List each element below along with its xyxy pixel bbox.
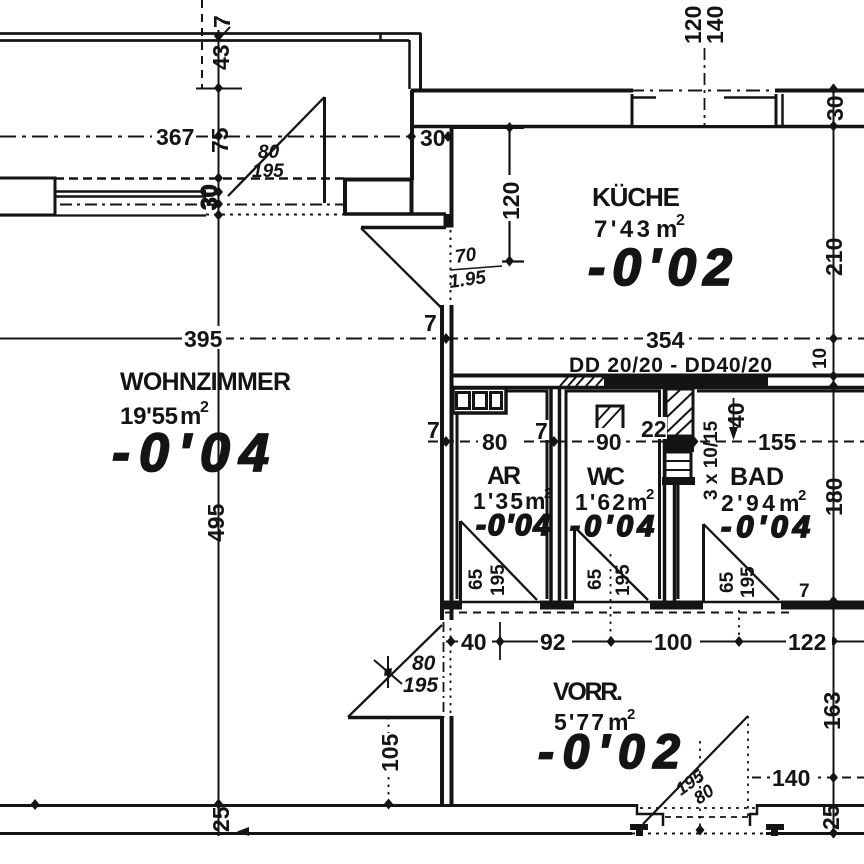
AR door size label [466,564,509,596]
svg-text:210: 210 [821,238,847,276]
rooms bottom dashed line [445,612,793,614]
AR door swing chord [461,521,538,600]
vorraum door size label [403,652,438,697]
WC fixture [597,406,623,434]
kitchen window recess [630,87,783,126]
balcony right edge inner [408,40,411,89]
dim 30 arrows at pier [407,125,453,151]
duct solid black wall segment [604,374,768,388]
entry door leaf diagonal [643,716,748,824]
rooms bottom wall segment 3 [650,601,703,610]
svg-text:10: 10 [810,348,831,369]
dim 140 [752,765,864,791]
svg-text:7: 7 [424,310,437,336]
WC door dotted dim line [610,554,612,640]
svg-text:AR: AR [487,462,521,490]
rooms bottom wall segment 4 [781,601,864,610]
svg-text:80: 80 [482,429,508,455]
top exterior wall outer face [411,89,864,93]
svg-text:155: 155 [758,429,797,455]
left window sill block [0,178,55,215]
svg-text:70: 70 [454,244,478,268]
kitchen door size handwriting [448,244,502,293]
svg-text:40: 40 [461,629,487,655]
entry door left jamb [630,804,663,836]
entry door right jamb [750,804,784,836]
svg-text:195: 195 [252,161,284,182]
svg-text:65: 65 [466,568,487,590]
wall segment pier to top wall [410,90,414,180]
kitchen door opening dotted edge [450,230,452,305]
svg-text:7: 7 [209,15,235,28]
svg-text:3 x 10/15: 3 x 10/15 [701,420,722,500]
svg-text:65: 65 [717,571,738,593]
window frame jamb [204,190,206,198]
dimension line 367 dashdot [0,136,410,138]
wall wohnzimmer/hall upper [442,305,452,620]
svg-text:140: 140 [702,6,728,44]
svg-text:395: 395 [184,326,223,352]
vorraum door leaf [348,716,442,720]
vorraum door swing chord [348,625,442,717]
AR door leaf [459,521,462,601]
hatched wall segment [560,377,604,386]
wall inner face line [0,214,206,216]
svg-text:80: 80 [258,142,280,163]
markers left line [214,31,223,810]
svg-text:65: 65 [585,568,606,590]
balcony door swing chord [228,97,325,196]
kitchen door leaf [361,226,446,230]
svg-text:40: 40 [723,402,749,428]
wall wohnzimmer/vorraum lower [442,716,452,806]
svg-text:180: 180 [821,478,847,516]
svg-text:2: 2 [676,212,685,229]
svg-text:-0'04: -0'04 [476,509,551,542]
svg-text:80: 80 [412,652,436,675]
dashed vertical at x202 [201,0,203,88]
svg-text:195: 195 [738,566,759,598]
area label 2.94 m2 [721,487,806,516]
balcony rail end vertical [379,33,382,41]
svg-text:2: 2 [798,487,806,504]
entry door marker [696,825,705,836]
shaft black bottom [662,477,695,485]
svg-text:140: 140 [772,765,810,791]
svg-text:75: 75 [207,127,233,153]
shaft pipe boxes [665,452,691,479]
svg-text:105: 105 [377,733,403,772]
svg-text:2: 2 [200,399,209,416]
WC door leaf [573,527,576,601]
wall inner dotted continuation [206,214,344,216]
kitchen door swing chord [361,228,442,308]
bottom exterior wall top face left [0,804,637,807]
dimension line 395/354 [0,326,864,353]
top exterior wall inner face [411,125,864,129]
svg-text:122: 122 [788,629,826,655]
vorraum door marker [374,656,402,688]
svg-text:22: 22 [641,416,667,442]
tick at 88 [196,88,242,90]
svg-text:2: 2 [544,485,552,502]
svg-text:30: 30 [196,184,222,210]
marker bottom wall left [31,799,40,810]
shaft hatched [666,389,693,436]
dimension line left vertical [218,30,220,836]
WC door swing chord [575,527,649,600]
svg-text:WOHNZIMMER: WOHNZIMMER [120,368,291,396]
area label 1.35 m2 [473,485,552,514]
label 367 [152,123,196,150]
vorraum door dotted line [450,628,452,714]
BAD door swing chord [704,524,780,600]
svg-text:495: 495 [203,503,229,542]
svg-text:2: 2 [646,486,654,503]
dimension line vorraum horizontal 641 [446,622,864,660]
bottom exterior wall top face right [757,804,864,807]
shaft black separator [663,436,694,452]
BAD room inner outline left [677,484,680,599]
AR room inner outline [457,391,547,599]
area label 19.55 m2 [120,399,209,430]
balcony rail inner line [0,39,409,42]
svg-text:100: 100 [654,629,692,655]
entry door threshold dashed [665,816,750,818]
svg-text:2: 2 [627,706,635,723]
window outer dashed line [55,177,344,180]
wall WC/BAD [665,387,675,601]
bottom exterior wall bottom face [0,832,864,835]
entry door dim dotted [699,741,701,834]
balcony rail top line [0,32,421,35]
svg-text:25: 25 [818,804,844,830]
wall AR/WC [551,387,560,601]
svg-text:KÜCHE: KÜCHE [592,182,680,212]
dim 40 vertical small [723,398,749,440]
svg-text:DD 20/20 - DD40/20: DD 20/20 - DD40/20 [569,354,772,377]
svg-text:VORR.: VORR. [553,678,623,706]
area label 5.77 m2 [554,706,635,735]
kitchen dim 120 vertical [451,122,524,267]
svg-text:367: 367 [156,124,194,150]
balcony door size label [252,142,284,182]
svg-text:BAD: BAD [730,463,784,491]
vorraum door centerline dashdot [443,622,445,722]
BAD door size label [717,566,759,598]
svg-text:30: 30 [420,125,446,151]
svg-text:7: 7 [427,417,440,443]
dim 105 dotted vertical [377,717,403,810]
BAD door leaf [702,524,705,601]
svg-text:195: 195 [613,564,634,596]
top dim 120/140 labels [680,6,728,127]
rooms bottom wall segment 2 [540,601,574,610]
kitchen wall stub inner [445,214,448,227]
svg-text:92: 92 [540,629,566,655]
tick diagonal 43/7 [218,27,230,40]
AR top fixture [453,388,506,413]
area label 7.43 m2 [594,212,685,243]
entry door swing dotted [747,716,749,816]
svg-text:WC: WC [587,463,625,491]
dimension line rooms horizontal 441 [425,416,864,455]
BAD room inner outline top [697,390,864,393]
arrow bottom wall [237,827,249,836]
WC room inner outline [566,391,660,599]
svg-text:195: 195 [403,674,438,697]
svg-text:30: 30 [822,95,848,121]
svg-text:195: 195 [488,564,509,596]
balcony right edge outer [419,33,422,90]
rooms top wall band [452,376,864,388]
svg-text:163: 163 [819,692,845,730]
balcony door leaf [323,97,326,203]
window frame line 2 [55,195,206,198]
window dashdot line [60,204,343,206]
markers right line [829,84,838,839]
kitchen wall stub corner fill [444,214,454,228]
svg-text:90: 90 [596,429,622,455]
BAD door dotted dim line [738,610,740,640]
rooms bottom wall threshold line [441,601,864,604]
wall pier right of balcony door [344,180,446,215]
svg-text:7: 7 [799,581,810,602]
dimension line right vertical [833,84,835,838]
kitchen left wall [450,126,454,227]
area label 1.62 m2 [575,486,654,515]
svg-text:25: 25 [208,806,234,832]
svg-text:7: 7 [535,418,548,444]
rooms bottom wall segment 1 [441,601,462,610]
entry door size handwriting [672,765,718,808]
svg-text:43: 43 [208,44,234,70]
WC door size label [585,564,634,596]
svg-text:354: 354 [646,327,685,353]
svg-text:120: 120 [498,182,524,220]
entry door threshold dotted [640,807,755,809]
window frame line 1 [55,190,206,193]
